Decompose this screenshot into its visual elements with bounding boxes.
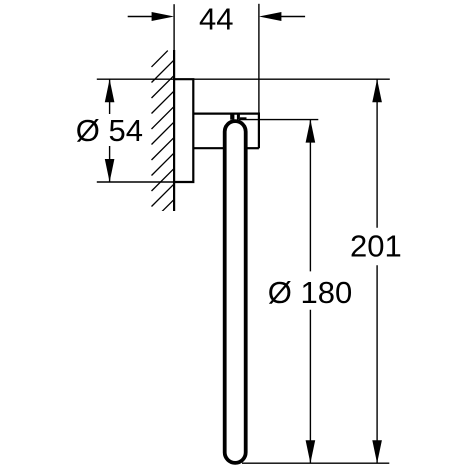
svg-text:Ø 180: Ø 180	[268, 275, 352, 310]
svg-text:201: 201	[350, 228, 402, 263]
pivot pin	[230, 115, 234, 120]
holder arm (side view)	[193, 114, 259, 149]
dim 180 down arrow	[306, 440, 316, 463]
dim 44 right arrow	[259, 12, 282, 21]
top extension line for dim 180	[239, 119, 318, 121]
extension line 44 left (above wall)	[173, 4, 175, 50]
dim 201 line lower segment	[376, 265, 378, 463]
dim 201 up arrow	[372, 79, 382, 102]
dim 180 up arrow	[306, 120, 316, 143]
pivot slot edge right of pin	[240, 117, 247, 119]
dim 201 line upper segment	[376, 79, 378, 228]
dim 54 down arrow	[105, 159, 115, 182]
wall line	[173, 50, 175, 211]
dim 201 down arrow	[372, 440, 382, 463]
bottom extension line (y=463) for dim 180 and 201	[242, 462, 389, 464]
towel ring tube (side view, stadium shape)	[225, 121, 246, 463]
dim 54 line upper segment	[109, 79, 111, 114]
wall mount flange (side view)	[174, 79, 193, 182]
extension line 44 right	[258, 4, 260, 114]
holder arm bottom edge left of ring	[193, 147, 223, 149]
svg-text:44: 44	[199, 1, 233, 36]
dim 44 right leader	[278, 16, 305, 18]
dim 44 left arrow	[152, 12, 175, 21]
holder arm bottom edge right of ring	[248, 147, 259, 149]
bottom extension line for dim 54	[97, 181, 174, 183]
top extension line (y=79) for dim 201 and dim 54	[97, 78, 390, 80]
dim 180 line upper segment	[309, 120, 311, 272]
dim 54 up arrow	[105, 79, 115, 102]
dim 44 left leader	[128, 16, 155, 18]
dim 180 line lower segment	[309, 310, 311, 464]
svg-text:Ø 54: Ø 54	[76, 113, 143, 148]
dim 54 line lower segment	[109, 146, 111, 182]
